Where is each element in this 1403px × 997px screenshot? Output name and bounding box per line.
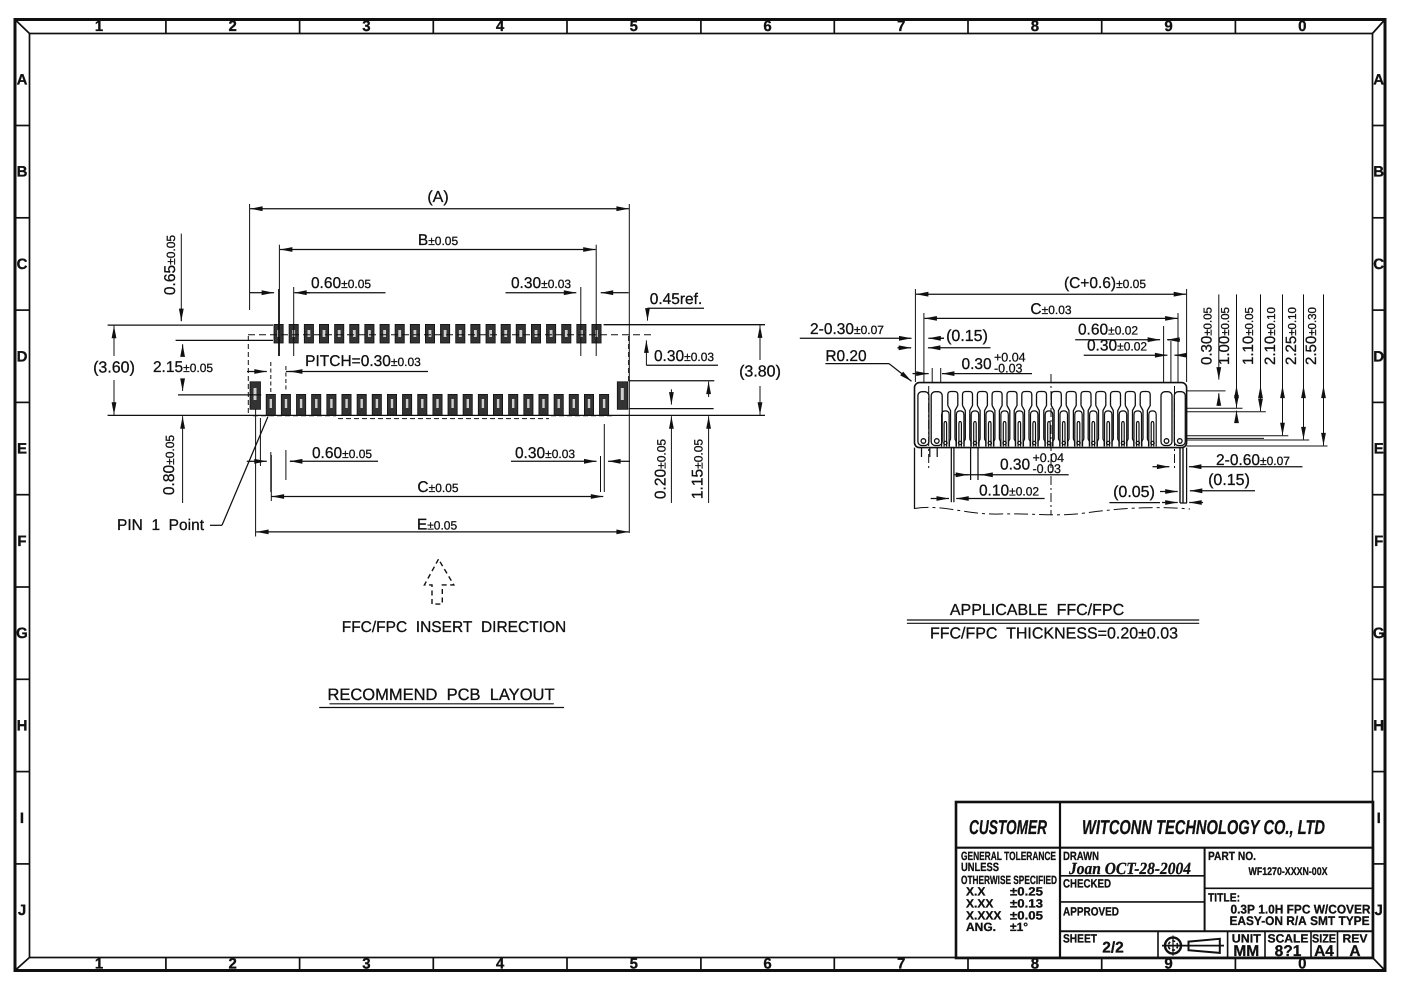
- svg-text:APPLICABLE FFC/FPC: APPLICABLE FFC/FPC: [950, 602, 1124, 619]
- svg-text:2/2: 2/2: [1102, 940, 1124, 957]
- svg-text:D: D: [17, 348, 28, 365]
- svg-text:C: C: [1373, 256, 1384, 273]
- svg-text:5: 5: [630, 18, 638, 35]
- projection symbol: [1162, 936, 1224, 956]
- centerlines dash-dot: [928, 386, 930, 470]
- svg-text:J: J: [18, 902, 26, 919]
- svg-text:0.30±0.02: 0.30±0.02: [1087, 338, 1147, 355]
- svg-text:7: 7: [897, 956, 905, 973]
- svg-text:0.10±0.02: 0.10±0.02: [979, 483, 1039, 500]
- dim B±0.05: [291, 249, 584, 251]
- svg-text:A4: A4: [1314, 943, 1334, 960]
- svg-text:(0.15): (0.15): [946, 328, 988, 345]
- corner diagonals: [16, 20, 31, 34]
- svg-text:PART NO.: PART NO.: [1208, 849, 1256, 863]
- svg-text:0.30±0.03: 0.30±0.03: [654, 348, 714, 365]
- svg-text:0.60±0.02: 0.60±0.02: [1078, 322, 1138, 339]
- svg-text:WF1270-XXXN-00X: WF1270-XXXN-00X: [1249, 866, 1329, 878]
- svg-text:E±0.05: E±0.05: [417, 517, 458, 534]
- svg-text:(3.60): (3.60): [93, 360, 135, 377]
- svg-text:1: 1: [95, 18, 103, 35]
- svg-text:0.30±0.03: 0.30±0.03: [515, 445, 575, 462]
- svg-text:B: B: [17, 164, 28, 181]
- tail width dim: [1162, 502, 1168, 504]
- svg-text:J: J: [1375, 902, 1383, 919]
- svg-text:4: 4: [496, 956, 505, 973]
- svg-text:0.45ref.: 0.45ref.: [650, 291, 703, 308]
- svg-text:MM: MM: [1233, 943, 1259, 960]
- svg-text:3: 3: [362, 18, 370, 35]
- anchor pads: [250, 382, 628, 410]
- svg-text:CUSTOMER: CUSTOMER: [969, 817, 1047, 839]
- svg-text:3: 3: [362, 956, 370, 973]
- svg-text:0.30: 0.30: [1000, 457, 1031, 474]
- svg-text:0.20±0.05: 0.20±0.05: [653, 439, 670, 499]
- wavy break line: [915, 507, 1191, 514]
- svg-text:A: A: [1373, 71, 1384, 88]
- bottom slot row: [942, 411, 1157, 447]
- top slot row: [948, 392, 1150, 447]
- svg-text:±1°: ±1°: [1010, 920, 1028, 934]
- svg-text:RECOMMEND PCB LAYOUT: RECOMMEND PCB LAYOUT: [327, 686, 554, 704]
- svg-text:4: 4: [496, 18, 505, 35]
- svg-text:7: 7: [897, 18, 905, 35]
- dashed centerline top row: [248, 334, 651, 336]
- svg-text:8: 8: [1031, 18, 1039, 35]
- svg-text:(0.05): (0.05): [1113, 484, 1155, 501]
- feature lines right side: [604, 324, 765, 326]
- svg-text:APPROVED: APPROVED: [1063, 905, 1119, 919]
- dashed connector outline: [247, 336, 249, 413]
- svg-text:FFC/FPC INSERT DIRECTION: FFC/FPC INSERT DIRECTION: [342, 619, 566, 636]
- svg-text:(3.80): (3.80): [739, 364, 781, 381]
- FFC/FPC insert direction dashed arrow: [424, 559, 453, 604]
- svg-text:PITCH=0.30±0.03: PITCH=0.30±0.03: [305, 353, 421, 370]
- svg-text:-0.03: -0.03: [1033, 462, 1062, 476]
- svg-text:G: G: [1373, 625, 1385, 642]
- svg-text:F: F: [1374, 533, 1383, 550]
- svg-text:I: I: [1377, 810, 1381, 827]
- svg-text:(0.15): (0.15): [1208, 472, 1250, 489]
- svg-text:WITCONN TECHNOLOGY CO., LTD: WITCONN TECHNOLOGY CO., LTD: [1082, 817, 1325, 839]
- svg-text:2: 2: [229, 18, 237, 35]
- svg-text:0.80±0.05: 0.80±0.05: [161, 435, 178, 495]
- svg-text:5: 5: [630, 956, 638, 973]
- svg-text:Joan OCT-28-2004: Joan OCT-28-2004: [1068, 859, 1191, 878]
- svg-text:E: E: [1374, 441, 1384, 458]
- svg-text:(C+0.6)±0.05: (C+0.6)±0.05: [1064, 275, 1146, 292]
- top pad row (22 pads): [274, 324, 601, 343]
- svg-text:A: A: [17, 71, 28, 88]
- svg-text:2: 2: [229, 956, 237, 973]
- svg-text:G: G: [16, 625, 28, 642]
- title block: [956, 802, 1373, 958]
- svg-text:C±0.03: C±0.03: [1030, 301, 1071, 318]
- svg-text:B: B: [1373, 164, 1384, 181]
- svg-text:E: E: [17, 441, 27, 458]
- dim (A): [262, 208, 617, 210]
- svg-text:0.65±0.05: 0.65±0.05: [162, 235, 179, 295]
- svg-text:C±0.05: C±0.05: [417, 479, 458, 496]
- svg-text:6: 6: [763, 956, 771, 973]
- svg-text:PIN 1 Point: PIN 1 Point: [117, 517, 205, 534]
- svg-text:1: 1: [95, 956, 103, 973]
- svg-text:D: D: [1373, 348, 1384, 365]
- body outline: [915, 383, 1187, 448]
- svg-text:1.15±0.05: 1.15±0.05: [690, 439, 707, 499]
- svg-text:0: 0: [1298, 18, 1306, 35]
- svg-text:R0.20: R0.20: [825, 348, 867, 365]
- svg-text:CHECKED: CHECKED: [1063, 877, 1111, 891]
- svg-text:9: 9: [1164, 18, 1172, 35]
- end slots: [918, 392, 1185, 446]
- svg-text:B±0.05: B±0.05: [418, 232, 459, 249]
- svg-text:0.60±0.05: 0.60±0.05: [312, 445, 372, 462]
- svg-text:C: C: [17, 256, 28, 273]
- svg-text:H: H: [17, 718, 28, 735]
- svg-text:(A): (A): [427, 189, 448, 206]
- svg-text:FFC/FPC THICKNESS=0.20±0.03: FFC/FPC THICKNESS=0.20±0.03: [930, 626, 1178, 643]
- frame column ticks: [165, 20, 167, 34]
- svg-text:8?1: 8?1: [1275, 943, 1302, 960]
- svg-text:2.15±0.05: 2.15±0.05: [153, 359, 213, 376]
- svg-text:0.60±0.05: 0.60±0.05: [311, 275, 371, 292]
- svg-text:6: 6: [763, 18, 771, 35]
- svg-text:0.30: 0.30: [962, 356, 993, 373]
- svg-text:A: A: [1349, 943, 1360, 960]
- bottom pad row (23 pads): [266, 394, 609, 415]
- svg-text:ANG.: ANG.: [966, 920, 996, 934]
- svg-text:2-0.30±0.07: 2-0.30±0.07: [810, 321, 884, 338]
- svg-text:UNLESS: UNLESS: [961, 860, 999, 874]
- feature lines left side: [108, 324, 273, 326]
- svg-text:EASY-ON R/A SMT TYPE: EASY-ON R/A SMT TYPE: [1230, 914, 1370, 928]
- svg-text:F: F: [17, 533, 26, 550]
- svg-text:SHEET: SHEET: [1063, 932, 1098, 946]
- svg-text:H: H: [1373, 718, 1384, 735]
- svg-text:I: I: [20, 810, 24, 827]
- svg-text:0.30±0.03: 0.30±0.03: [511, 275, 571, 292]
- contact tails below body: [921, 448, 923, 457]
